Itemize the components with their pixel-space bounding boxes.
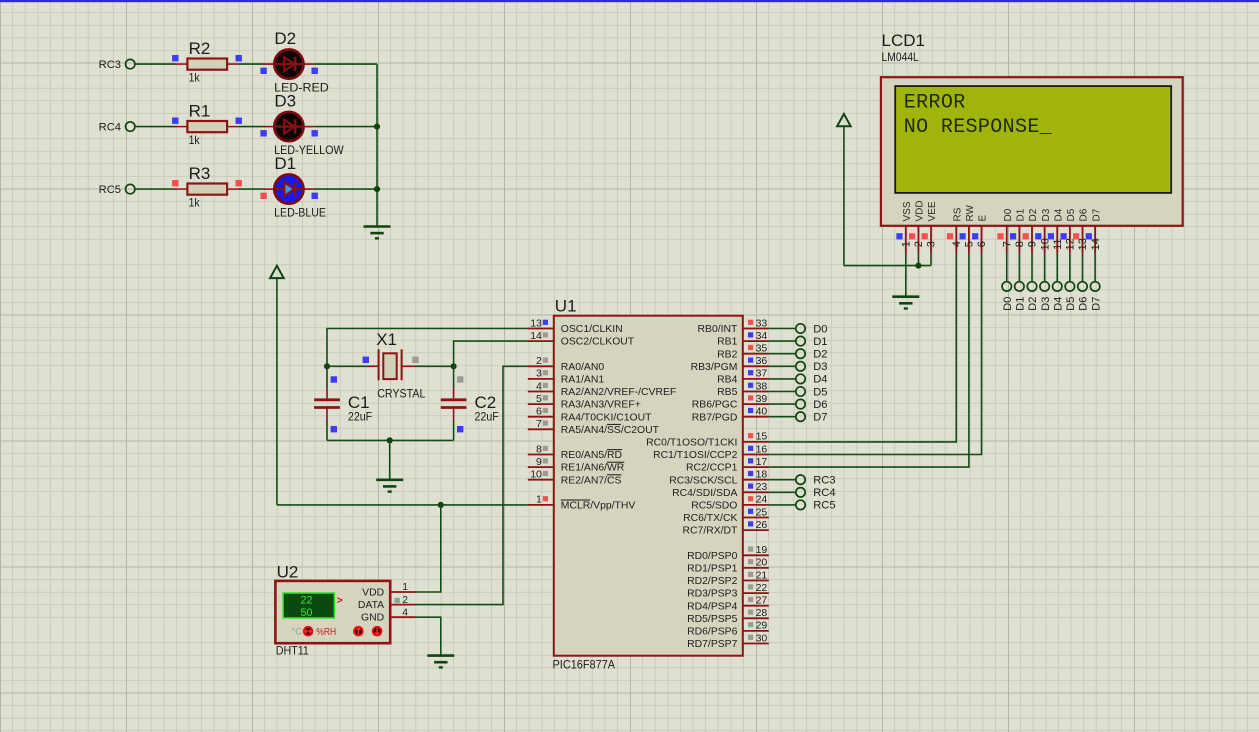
svg-text:D2: D2 (274, 29, 296, 48)
svg-text:RA4/T0CKI/C1OUT: RA4/T0CKI/C1OUT (561, 412, 652, 423)
svg-text:R1: R1 (189, 101, 211, 120)
LCD pin 9 logic-state square (1023, 233, 1029, 239)
logic-state square right of D1 (312, 193, 318, 199)
svg-text:D5: D5 (1066, 208, 1077, 221)
wire LCD D6 pin down to terminal (1081, 254, 1083, 282)
svg-text:D7: D7 (1090, 297, 1102, 311)
U1 pin 10 logic-state square (543, 471, 548, 476)
wire VDD pin down to rail (917, 254, 919, 266)
svg-text:12: 12 (1065, 238, 1077, 250)
DHT11 temperature icon (303, 626, 314, 637)
terminal D2 (LCD side) (1027, 282, 1036, 291)
wire LCD D2 pin down to terminal (1031, 254, 1033, 282)
logic-state square right of D3 (312, 130, 318, 136)
svg-text:10: 10 (530, 469, 542, 481)
wire RC4 terminal to R1 (135, 126, 175, 128)
svg-text:RB5: RB5 (717, 387, 737, 398)
U1 pin 33 (RB0/INT) stub (743, 328, 769, 330)
U1 pin 21 logic-state square (748, 572, 753, 577)
logic-state square right of D2 (312, 68, 318, 74)
svg-text:13: 13 (530, 317, 542, 329)
terminal D4 (PIC side) (796, 374, 805, 383)
U1 pin 36 logic-state square (748, 358, 753, 363)
svg-text:1: 1 (536, 494, 542, 506)
U1 pin 5 (RA3/AN3/VREF+) stub (528, 403, 554, 405)
wire RB3 to terminal D3 (769, 365, 796, 367)
U1 pin 28 logic-state square (748, 610, 753, 615)
svg-text:D3: D3 (274, 92, 296, 111)
svg-text:D1: D1 (1016, 208, 1027, 221)
U1 pin 16 logic-state square (748, 446, 753, 451)
terminal D1 (LCD side) (1015, 282, 1024, 291)
svg-text:RD5/PSP5: RD5/PSP5 (687, 614, 737, 625)
wire RW net (LCD pin5 to PIC RC2/pin17) (769, 254, 969, 467)
svg-text:D2: D2 (1028, 208, 1039, 221)
wire RB0 to terminal D0 (769, 328, 796, 330)
LCD pin 9 stub (1031, 226, 1033, 254)
logic-state square left of R3 (172, 180, 178, 186)
logic-state square left of D2 (260, 68, 266, 74)
U1 pin 29 (RD6/PSP6) stub (743, 630, 769, 632)
wire D1 to cathode trunk (314, 188, 377, 190)
U1 pin 1 logic-state square (543, 496, 548, 501)
svg-text:VSS: VSS (902, 201, 913, 221)
U1 pin 8 logic-state square (543, 446, 548, 451)
svg-text:1: 1 (402, 582, 408, 593)
svg-text:U1: U1 (555, 297, 577, 316)
svg-text:RB2: RB2 (717, 349, 737, 360)
svg-text:35: 35 (756, 343, 768, 355)
LCD pin 10 stub (1044, 226, 1046, 254)
DHT11 U2 body (275, 581, 390, 643)
U1 pin 40 logic-state square (748, 408, 753, 413)
U1 pin 15 (RC0/T1OSO/T1CKI) stub (743, 441, 769, 443)
svg-text:40: 40 (756, 406, 768, 418)
U1 pin 10 (RE2/AN7/CS) stub (528, 479, 554, 481)
svg-text:RC3/SCK/SCL: RC3/SCK/SCL (669, 475, 737, 486)
svg-text:5: 5 (536, 393, 542, 405)
LCD pin 3 stub (930, 226, 932, 254)
svg-text:°C: °C (292, 627, 303, 638)
svg-text:RC3: RC3 (813, 475, 835, 487)
svg-text:21: 21 (756, 569, 768, 581)
wire OSC1 net: pin13 to crystal left (327, 329, 528, 367)
U1 pin 30 logic-state square (748, 635, 753, 640)
U1 pin 20 (RD1/PSP1) stub (743, 567, 769, 569)
U1 pin 1 (MCLR/Vpp/THV) stub (528, 504, 554, 506)
U1 pin 5 logic-state square (543, 395, 548, 400)
svg-text:RC1/T1OSI/CCP2: RC1/T1OSI/CCP2 (653, 450, 738, 461)
LCD pin 13 logic-state square (1073, 233, 1079, 239)
U1 pin 17 (RC2/CCP1) stub (743, 466, 769, 468)
wire OSC2 net: pin14 to crystal right (454, 341, 528, 366)
svg-text:D5: D5 (813, 386, 827, 398)
U1 pin 19 (RD0/PSP0) stub (743, 554, 769, 556)
junction at D3 cathode (374, 124, 380, 130)
svg-text:RC5: RC5 (99, 184, 121, 196)
svg-text:D5: D5 (1065, 297, 1077, 311)
terminal D5 (PIC side) (796, 387, 805, 396)
svg-text:1: 1 (901, 241, 913, 247)
wire LCD D0 pin down to terminal (1006, 254, 1008, 282)
svg-text:OSC1/CLKIN: OSC1/CLKIN (561, 324, 623, 335)
svg-text:VDD: VDD (362, 587, 384, 598)
capacitor C2 (441, 387, 467, 422)
U1 pin 36 (RB3/PGM) stub (743, 365, 769, 367)
U1 pin 16 (RC1/T1OSI/CCP2) stub (743, 454, 769, 456)
svg-text:8: 8 (1014, 241, 1026, 247)
DHT11 DATA logic-state square (395, 598, 400, 603)
svg-text:39: 39 (756, 393, 768, 405)
wire DHT11 GND down to ground (416, 617, 441, 654)
svg-text:RC5/SDO: RC5/SDO (691, 501, 737, 512)
svg-text:D3: D3 (1041, 208, 1052, 221)
U1 pin 34 (RB1) stub (743, 340, 769, 342)
LCD pin 5 stub (968, 226, 970, 254)
U1 pin 34 logic-state square (748, 332, 753, 337)
svg-text:D0: D0 (1002, 297, 1014, 311)
U1 pin 39 logic-state square (748, 395, 753, 400)
svg-text:PIC16F877A: PIC16F877A (553, 657, 616, 671)
wire RB7 to terminal D7 (769, 416, 796, 418)
wire C1 bottom (326, 421, 328, 440)
svg-text:D3: D3 (813, 361, 827, 373)
junction at crystal ground node (387, 437, 393, 443)
LCD pin 2 stub (917, 226, 919, 254)
svg-text:RA1/AN1: RA1/AN1 (561, 375, 605, 386)
svg-text:RB7/PGD: RB7/PGD (692, 412, 738, 423)
U1 pin 24 (RC5/SDO) stub (743, 504, 769, 506)
logic-state square left of R2 (172, 55, 178, 61)
wire capacitor common bottom (327, 439, 454, 441)
svg-text:9: 9 (536, 456, 542, 468)
U1 pin 2 (RA0/AN0) stub (528, 365, 554, 367)
svg-text:RC2/CCP1: RC2/CCP1 (686, 463, 738, 474)
LCD pin 8 logic-state square (1010, 233, 1016, 239)
wire RB6 to terminal D6 (769, 403, 796, 405)
svg-text:30: 30 (756, 632, 768, 644)
svg-text:4: 4 (536, 380, 542, 392)
LCD pin 14 logic-state square (1086, 233, 1092, 239)
LCD pin 7 logic-state square (997, 233, 1003, 239)
wire RC3 terminal to R2 (135, 63, 175, 65)
svg-text:DATA: DATA (358, 600, 384, 611)
svg-text:NO RESPONSE_: NO RESPONSE_ (904, 116, 1053, 139)
wire LCD D1 pin down to terminal (1018, 254, 1020, 282)
svg-text:VEE: VEE (927, 201, 938, 221)
svg-text:38: 38 (756, 380, 768, 392)
logic-state square left of D3 (260, 130, 266, 136)
U1 pin 22 logic-state square (748, 584, 753, 589)
U1 pin 40 (RB7/PGD) stub (743, 416, 769, 418)
svg-text:RD7/PSP7: RD7/PSP7 (687, 639, 737, 650)
resistor R3 (174, 184, 238, 195)
wire crystal left junction to X1 (327, 365, 370, 367)
svg-text:>: > (337, 595, 343, 607)
wire RB1 to terminal D1 (769, 340, 796, 342)
U1 pin 18 (RC3/SCK/SCL) stub (743, 479, 769, 481)
U1 pin 23 (RC4/SDI/SDA) stub (743, 491, 769, 493)
svg-text:17: 17 (756, 456, 768, 468)
svg-text:6: 6 (536, 406, 542, 418)
wire down to crystal ground (389, 440, 391, 478)
DHT11 pin 1 (VDD) stub (390, 591, 415, 593)
svg-text:D0: D0 (813, 323, 827, 335)
U1 pin 35 logic-state square (748, 345, 753, 350)
svg-text:10: 10 (1039, 238, 1051, 250)
svg-text:RD3/PSP3: RD3/PSP3 (687, 589, 737, 600)
logic-state square right of R2 (236, 55, 242, 61)
wire power arrow down to MCLR net (276, 278, 278, 505)
terminal RC3 (PIC side) (796, 475, 805, 484)
ground (DHT11) (427, 656, 454, 668)
wire LCD D5 pin down to terminal (1069, 254, 1071, 282)
U1 pin 14 logic-state square (543, 332, 548, 337)
svg-text:3: 3 (926, 241, 938, 247)
sheet border (blue) (0, 0, 1259, 2)
svg-text:36: 36 (756, 355, 768, 367)
terminal D5 (LCD side) (1065, 282, 1074, 291)
terminal D4 (LCD side) (1053, 282, 1062, 291)
svg-text:D6: D6 (813, 399, 827, 411)
U1 pin 19 logic-state square (748, 547, 753, 552)
svg-text:RB3/PGM: RB3/PGM (691, 362, 738, 373)
wire R1 to D3 (239, 126, 265, 128)
LCD pin 7 stub (1006, 226, 1008, 254)
wire VSS pin down to ground (905, 254, 907, 297)
svg-text:50: 50 (301, 607, 313, 619)
LCD pin 6 logic-state square (972, 233, 978, 239)
svg-text:RD6/PSP6: RD6/PSP6 (687, 627, 737, 638)
U1 pin 26 logic-state square (748, 521, 753, 526)
DHT11 down-arrow icon (372, 626, 383, 637)
svg-text:24: 24 (756, 494, 768, 506)
U1 pin 14 (OSC2/CLKOUT) stub (528, 340, 554, 342)
svg-text:5: 5 (964, 241, 976, 247)
svg-text:RC6/TX/CK: RC6/TX/CK (683, 513, 737, 524)
wire C2 top (453, 366, 455, 387)
U1 pin 9 (RE1/AN6/WR) stub (528, 466, 554, 468)
svg-text:15: 15 (756, 431, 768, 443)
logic-state square right of R3 (236, 180, 242, 186)
power arrow (VDD rail by DHT11) (270, 266, 284, 278)
svg-text:22: 22 (756, 582, 768, 594)
terminal D7 (PIC side) (796, 412, 805, 421)
svg-text:RA0/AN0: RA0/AN0 (561, 362, 605, 373)
svg-text:E: E (978, 215, 989, 222)
terminal D6 (PIC side) (796, 399, 805, 408)
terminal D6 (LCD side) (1078, 282, 1087, 291)
LCD pin 14 stub (1094, 226, 1096, 254)
svg-text:9: 9 (1027, 241, 1039, 247)
svg-text:RE1/AN6/WR: RE1/AN6/WR (561, 463, 625, 474)
svg-text:16: 16 (756, 443, 768, 455)
wire power rail to VEE (844, 265, 931, 267)
svg-text:D6: D6 (1079, 208, 1090, 221)
terminal RC4 (PIC side) (796, 488, 805, 497)
svg-text:37: 37 (756, 368, 768, 380)
U1 pin 17 logic-state square (748, 458, 753, 463)
svg-text:CRYSTAL: CRYSTAL (377, 387, 426, 401)
LCD pin 1 logic-state square (896, 233, 902, 239)
junction at D1 cathode (374, 186, 380, 192)
svg-text:RA2/AN2/VREF-/CVREF: RA2/AN2/VREF-/CVREF (561, 387, 676, 398)
wire RS net (LCD pin4 to PIC RC0/pin15) (769, 254, 956, 442)
svg-text:D1: D1 (274, 154, 296, 173)
svg-text:GND: GND (361, 613, 384, 624)
U1 pin 13 logic-state square (543, 320, 548, 325)
svg-text:RD4/PSP4: RD4/PSP4 (687, 601, 737, 612)
U1 pin 3 (RA1/AN1) stub (528, 378, 554, 380)
svg-text:D3: D3 (1040, 297, 1052, 311)
ground (LCD VSS) (892, 297, 919, 309)
svg-text:26: 26 (756, 519, 768, 531)
svg-text:11: 11 (1052, 238, 1064, 249)
DHT11 pin 4 (GND) stub (390, 616, 415, 618)
capacitor C1 (314, 387, 340, 422)
svg-text:RS: RS (952, 207, 963, 221)
U1 pin 7 logic-state square (543, 421, 548, 426)
crystal X1 (369, 349, 416, 380)
wire LED cathode trunk (vertical) (376, 64, 378, 226)
logic-state square at C1 top (331, 376, 337, 382)
wire DHT11 DATA to U1 RA0 (416, 366, 528, 604)
terminal RC3 (126, 59, 135, 68)
LCD pin 5 logic-state square (960, 233, 966, 239)
svg-text:18: 18 (756, 469, 768, 481)
svg-text:RC3: RC3 (99, 59, 121, 71)
terminal D0 (LCD side) (1002, 282, 1011, 291)
terminal D3 (LCD side) (1040, 282, 1049, 291)
terminal D2 (PIC side) (796, 349, 805, 358)
wire R2 to D2 (239, 63, 265, 65)
terminal RC5 (PIC side) (796, 500, 805, 509)
U1 pin 3 logic-state square (543, 370, 548, 375)
svg-text:2: 2 (536, 355, 542, 367)
svg-text:1k: 1k (189, 133, 201, 147)
U1 pin 13 (OSC1/CLKIN) stub (528, 328, 554, 330)
U1 pin 2 logic-state square (543, 358, 548, 363)
U1 pin 24 logic-state square (748, 496, 753, 501)
svg-text:RB6/PGC: RB6/PGC (692, 400, 738, 411)
svg-text:8: 8 (536, 443, 542, 455)
U1 pin 38 logic-state square (748, 383, 753, 388)
svg-text:X1: X1 (376, 330, 397, 349)
svg-text:1k: 1k (189, 71, 201, 85)
wire power arrow down (843, 127, 845, 266)
U1 pin 9 logic-state square (543, 458, 548, 463)
U1 pin 23 logic-state square (748, 484, 753, 489)
resistor R2 (174, 59, 238, 70)
terminal D1 (PIC side) (796, 336, 805, 345)
svg-text:D1: D1 (813, 336, 827, 348)
logic-state square right of R1 (236, 118, 242, 124)
U1 pin 37 logic-state square (748, 370, 753, 375)
LCD LM044L body (881, 77, 1183, 226)
wire LCD D4 pin down to terminal (1056, 254, 1058, 282)
wire C1 top (326, 366, 328, 387)
svg-text:22uF: 22uF (348, 409, 372, 423)
svg-text:RA3/AN3/VREF+: RA3/AN3/VREF+ (561, 400, 641, 411)
svg-text:20: 20 (756, 557, 768, 569)
wire LCD D3 pin down to terminal (1044, 254, 1046, 282)
svg-text:VDD: VDD (915, 200, 926, 221)
svg-text:RB1: RB1 (717, 337, 737, 348)
logic-state square at C1 bottom (331, 426, 337, 432)
svg-text:D4: D4 (813, 374, 827, 386)
svg-text:29: 29 (756, 620, 768, 632)
svg-text:RD0/PSP0: RD0/PSP0 (687, 551, 737, 562)
LCD pin 13 stub (1081, 226, 1083, 254)
U1 pin 7 (RA5/AN4/SS/C2OUT) stub (528, 428, 554, 430)
LCD pin 4 logic-state square (947, 233, 953, 239)
svg-text:LM044L: LM044L (882, 50, 920, 64)
wire RB5 to terminal D5 (769, 391, 796, 393)
U1 pin 18 logic-state square (748, 471, 753, 476)
U1 pin 35 (RB2) stub (743, 353, 769, 355)
svg-text:OSC2/CLKOUT: OSC2/CLKOUT (561, 337, 635, 348)
terminal RC5 (126, 184, 135, 193)
logic-state square at C2 bottom (457, 426, 463, 432)
svg-text:RW: RW (965, 204, 976, 221)
power arrow (VDD rail by LCD) (837, 114, 851, 126)
DHT11 pin 2 (DATA) stub (390, 604, 415, 606)
svg-text:LCD1: LCD1 (882, 31, 925, 50)
svg-text:19: 19 (756, 544, 768, 556)
U1 pin 20 logic-state square (748, 559, 753, 564)
svg-text:R2: R2 (189, 39, 211, 58)
svg-text:13: 13 (1077, 238, 1089, 250)
svg-text:RC7/RX/DT: RC7/RX/DT (683, 526, 738, 537)
wire E net (LCD pin6 to PIC RC1/pin16) (769, 254, 982, 455)
svg-text:1k: 1k (189, 196, 201, 210)
U1 pin 6 logic-state square (543, 408, 548, 413)
U1 pin 30 (RD7/PSP7) stub (743, 643, 769, 645)
wire X1 to right junction (415, 365, 454, 367)
resistor R1 (174, 121, 238, 132)
wire down to DHT11 VDD (416, 505, 441, 592)
LED D3 (LED-YELLOW) (264, 112, 314, 141)
wire MCLR net to U1 pin 1 (277, 504, 528, 506)
svg-text:RB0/INT: RB0/INT (698, 324, 738, 335)
wire RC5 terminal to R3 (135, 188, 175, 190)
svg-text:4: 4 (402, 607, 408, 618)
U1 pin 33 logic-state square (748, 320, 753, 325)
DHT11 up-arrow icon (353, 626, 364, 637)
U1 pin 6 (RA4/T0CKI/C1OUT) stub (528, 416, 554, 418)
wire VEE pin down to rail (930, 254, 932, 266)
LCD pin 8 stub (1018, 226, 1020, 254)
svg-text:RC0/T1OSO/T1CKI: RC0/T1OSO/T1CKI (646, 438, 737, 449)
svg-text:MCLR/Vpp/THV: MCLR/Vpp/THV (561, 501, 636, 512)
LCD pin 2 logic-state square (909, 233, 915, 239)
wire D2 to cathode trunk (314, 63, 377, 65)
svg-text:4: 4 (951, 241, 963, 247)
svg-text:RD1/PSP1: RD1/PSP1 (687, 564, 737, 575)
svg-text:28: 28 (756, 607, 768, 619)
svg-text:RE2/AN7/CS: RE2/AN7/CS (561, 475, 622, 486)
svg-text:14: 14 (1090, 238, 1102, 250)
wire RC4 pin to terminal RC4 (769, 491, 796, 493)
svg-text:RE0/AN5/RD: RE0/AN5/RD (561, 450, 622, 461)
U1 pin 25 (RC6/TX/CK) stub (743, 517, 769, 519)
svg-text:14: 14 (530, 330, 542, 342)
svg-text:2: 2 (913, 241, 925, 247)
svg-text:LED-BLUE: LED-BLUE (274, 206, 326, 220)
U1 pin 38 (RB5) stub (743, 391, 769, 393)
svg-text:D7: D7 (813, 412, 827, 424)
svg-text:33: 33 (756, 317, 768, 329)
